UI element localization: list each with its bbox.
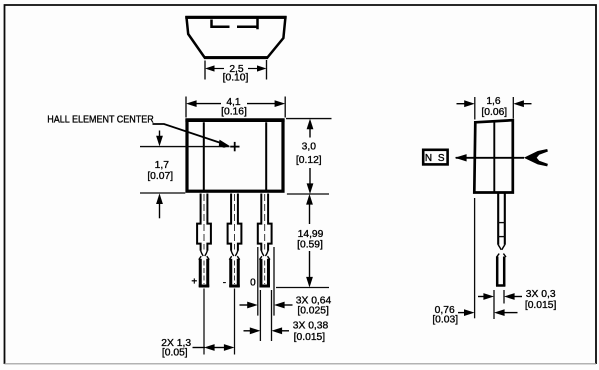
svg-text:0: 0 (250, 277, 256, 288)
svg-text:[0.59]: [0.59] (297, 240, 323, 251)
svg-text:[0.10]: [0.10] (223, 73, 249, 84)
svg-text:[0.015]: [0.015] (294, 332, 326, 343)
svg-text:-: - (223, 277, 226, 288)
dimension 4,1 extension lines (186, 97, 285, 118)
dimension 3X 0,38 arrows (244, 327, 290, 334)
svg-text:1,6: 1,6 (486, 96, 501, 107)
dimension 2X 1,3 line and arrows (193, 344, 235, 351)
dimension 0,76 arrows (458, 309, 518, 316)
dimension 3,0 arrows and line (307, 119, 314, 194)
magnetic axis left arrowhead (455, 154, 467, 161)
dimension 4,1 arrows (186, 100, 285, 107)
lead 1 extension line below (203, 289, 205, 355)
lead 3 width extension lines (258, 247, 274, 341)
svg-text:3X 0,3: 3X 0,3 (526, 289, 556, 300)
dimension 2,5 arrows and line (205, 65, 267, 71)
dimension 1,6 extension lines (475, 97, 514, 120)
hall element center line (140, 146, 230, 148)
lead 2 extension line below (234, 289, 236, 355)
lead 3 (258, 194, 272, 288)
svg-text:1,7: 1,7 (155, 160, 170, 171)
svg-text:3X 0,38: 3X 0,38 (293, 321, 329, 332)
dimension 1,7 lower extension line (140, 192, 185, 194)
dimension 2,5 extension lines (205, 60, 267, 80)
side view inner line (493, 122, 495, 193)
dimension 14,99 arrows and line (306, 194, 313, 288)
lead 1 (197, 194, 211, 288)
top view outline (185, 17, 286, 57)
svg-text:[0.07]: [0.07] (147, 171, 173, 182)
dimension 1,7 arrows (156, 131, 163, 219)
svg-text:[0.16]: [0.16] (221, 106, 247, 117)
side view extension lines (475, 198, 504, 319)
svg-text:[0.06]: [0.06] (481, 107, 507, 118)
svg-text:14,99: 14,99 (298, 229, 324, 240)
svg-text:[0.03]: [0.03] (432, 315, 458, 326)
NS box (423, 150, 447, 165)
dimension 3X 0,3 arrows (478, 293, 522, 300)
front view inner lines (204, 122, 266, 190)
hall element center leader (153, 124, 230, 148)
magnetic axis right arrowhead with barbs (524, 149, 548, 166)
svg-text:HALL ELEMENT CENTER: HALL ELEMENT CENTER (47, 115, 154, 126)
dimension 1,6 arrows (457, 100, 532, 107)
svg-text:3X 0,64: 3X 0,64 (296, 295, 332, 306)
magnetic axis line (456, 157, 524, 159)
dimension 3,0 extension lines (286, 119, 332, 194)
svg-text:3,0: 3,0 (302, 142, 317, 153)
side lead (496, 194, 506, 287)
front view body (187, 120, 283, 191)
svg-text:[0.015]: [0.015] (525, 300, 557, 311)
hall element center cross (230, 142, 239, 151)
top view notch (212, 19, 258, 30)
svg-text:[0.05]: [0.05] (162, 348, 188, 359)
side view body (474, 120, 513, 192)
svg-text:[0.025]: [0.025] (297, 306, 329, 317)
svg-text:[0.12]: [0.12] (296, 155, 322, 166)
dimension 14,99 bottom extension line (276, 287, 329, 289)
svg-text:+: + (191, 276, 197, 287)
dimension 3X 0,64 arrows (240, 302, 293, 309)
lead 2 (228, 194, 242, 288)
svg-text:N S: N S (425, 153, 446, 164)
